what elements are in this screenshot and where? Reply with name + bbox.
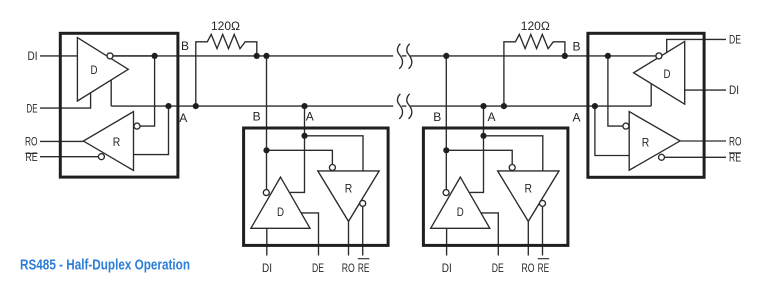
svg-text:DI: DI <box>442 263 452 275</box>
bubble R inverting input B <box>134 123 140 129</box>
wire from A node to R input <box>305 136 364 171</box>
box U4 outline <box>588 33 704 177</box>
break symbol on B line <box>397 44 411 69</box>
svg-text:RO: RO <box>729 137 742 149</box>
svg-text:DI: DI <box>28 51 38 63</box>
receiver R U1 <box>83 112 133 171</box>
receiver R U2 <box>318 171 379 222</box>
bubble R inverting input (B) <box>509 165 515 171</box>
break symbol on A line <box>397 94 411 119</box>
wire node A down to R input <box>595 106 629 155</box>
wire RE input <box>665 156 726 158</box>
svg-text:DE: DE <box>27 103 38 115</box>
bubble D inverting input (B) <box>443 190 449 196</box>
svg-text:R: R <box>642 137 650 149</box>
wire DI stub <box>446 228 448 255</box>
driver D U3 <box>431 177 490 228</box>
junction node B-U3 tap <box>443 53 449 59</box>
svg-text:RS485 - Half-Duplex Operation: RS485 - Half-Duplex Operation <box>20 258 190 274</box>
svg-text:B: B <box>181 39 189 53</box>
junction node B inside U2 <box>263 147 269 153</box>
receiver R U3 <box>498 171 559 222</box>
wire node B down to R inverting input <box>608 56 623 126</box>
box U1 outline <box>60 33 178 177</box>
driver D U4 <box>634 41 685 104</box>
wire B tap down into box to D bubble <box>445 56 447 190</box>
svg-text:R: R <box>345 184 353 196</box>
wire B bus mid stub in break <box>402 55 407 57</box>
wire RO output <box>680 140 726 142</box>
wire B tap down into box to D bubble <box>266 56 268 190</box>
wire RO stub <box>348 221 350 255</box>
svg-text:RO: RO <box>25 137 38 149</box>
wire A bus right segment <box>410 105 651 107</box>
box U2 outline <box>244 128 389 245</box>
wire from B node to R inverting bubble <box>446 150 512 164</box>
junction node A-U1 <box>165 103 171 109</box>
svg-text:B: B <box>253 109 261 123</box>
wire A bus mid stub in break <box>402 105 407 107</box>
svg-text:D: D <box>277 207 284 219</box>
bubble RE enable on R right edge <box>540 200 546 206</box>
junction node A-Rterm-left <box>193 103 199 109</box>
junction node B-Rterm-right <box>562 53 568 59</box>
wire DI input right <box>685 89 726 91</box>
svg-text:RO: RO <box>522 263 535 275</box>
wire node B down to R inverting input <box>140 56 154 126</box>
wire B bus right segment <box>410 55 656 57</box>
wire DE input with rise to D bottom edge <box>40 93 91 108</box>
bubble D inverting input (B) <box>263 190 269 196</box>
wire DI input left <box>40 55 77 57</box>
wire D output A: down from bottom edge to A bus <box>110 80 112 106</box>
svg-text:R: R <box>113 137 121 149</box>
wire A bus left segment <box>111 105 393 107</box>
overline RE U1 <box>25 152 37 154</box>
svg-text:120Ω: 120Ω <box>211 19 240 33</box>
wire DE stub <box>481 213 498 256</box>
svg-text:RO: RO <box>342 263 355 275</box>
junction node A-U4 <box>592 103 598 109</box>
driver D U2 <box>251 177 310 228</box>
junction node B inside U3 <box>443 147 449 153</box>
svg-text:DI: DI <box>729 85 739 97</box>
wire A tap down into box <box>290 106 304 192</box>
svg-text:RE: RE <box>729 152 741 164</box>
wire from A node to R input <box>484 136 543 171</box>
bubble R inverting input (B) <box>329 165 335 171</box>
driver D U1 <box>77 38 128 101</box>
bubble RE enable on R bottom edge <box>659 154 665 160</box>
resistor R-right 120ohm <box>504 34 565 106</box>
wire DE stub <box>301 213 318 256</box>
svg-text:A: A <box>572 111 580 125</box>
junction node B-Rterm-left <box>254 53 260 59</box>
svg-text:D: D <box>457 207 464 219</box>
svg-text:A: A <box>487 110 495 124</box>
bubble on D output (B) <box>656 53 662 59</box>
junction node B-U1 <box>152 53 158 59</box>
wire RE input <box>40 156 98 158</box>
overline RE U2 <box>358 258 370 260</box>
wire D output A: from A bus up to D bottom edge <box>650 84 652 107</box>
svg-text:DE: DE <box>492 263 504 275</box>
wire B bus left segment <box>113 55 393 57</box>
junction node A inside U2 <box>301 133 307 139</box>
wire RE stub <box>542 207 544 256</box>
svg-text:DI: DI <box>262 263 272 275</box>
wire DE from top into D upper edge <box>667 39 726 52</box>
overline RE U4 <box>729 152 741 154</box>
svg-text:RE: RE <box>358 263 370 275</box>
svg-text:RE: RE <box>538 263 550 275</box>
bubble RE enable on R bottom edge <box>98 154 104 160</box>
wire DI stub <box>266 228 268 255</box>
svg-text:A: A <box>306 109 314 123</box>
wire RO stub <box>527 221 529 255</box>
svg-text:D: D <box>664 69 671 81</box>
svg-text:A: A <box>179 111 187 125</box>
junction node A-U2 tap <box>301 103 307 109</box>
receiver R U4 <box>629 112 680 171</box>
svg-text:DE: DE <box>729 34 741 46</box>
svg-text:120Ω: 120Ω <box>521 19 550 33</box>
bubble on D output (B) <box>107 53 113 59</box>
wire RE stub <box>362 207 364 256</box>
wire RO output <box>40 140 83 142</box>
svg-text:D: D <box>91 65 98 77</box>
junction node A-Rterm-right <box>501 103 507 109</box>
svg-text:B: B <box>433 110 441 124</box>
bubble RE enable on R right edge <box>360 200 366 206</box>
resistor R-left 120ohm <box>196 34 257 106</box>
junction node B-U4 <box>605 53 611 59</box>
box U3 outline <box>423 128 568 245</box>
bubble R inverting input B <box>623 123 629 129</box>
svg-text:R: R <box>525 184 533 196</box>
junction node B-U2 tap <box>263 53 269 59</box>
svg-text:B: B <box>572 40 580 54</box>
wire bubble to node B <box>113 55 154 57</box>
wire node A down to R input <box>134 106 169 155</box>
svg-text:DE: DE <box>312 263 324 275</box>
junction node A inside U3 <box>480 133 486 139</box>
wire A tap down into box <box>470 106 484 192</box>
overline RE U3 <box>538 258 550 260</box>
junction node A-U3 tap <box>480 103 486 109</box>
wire from B node to R inverting bubble <box>267 150 333 164</box>
